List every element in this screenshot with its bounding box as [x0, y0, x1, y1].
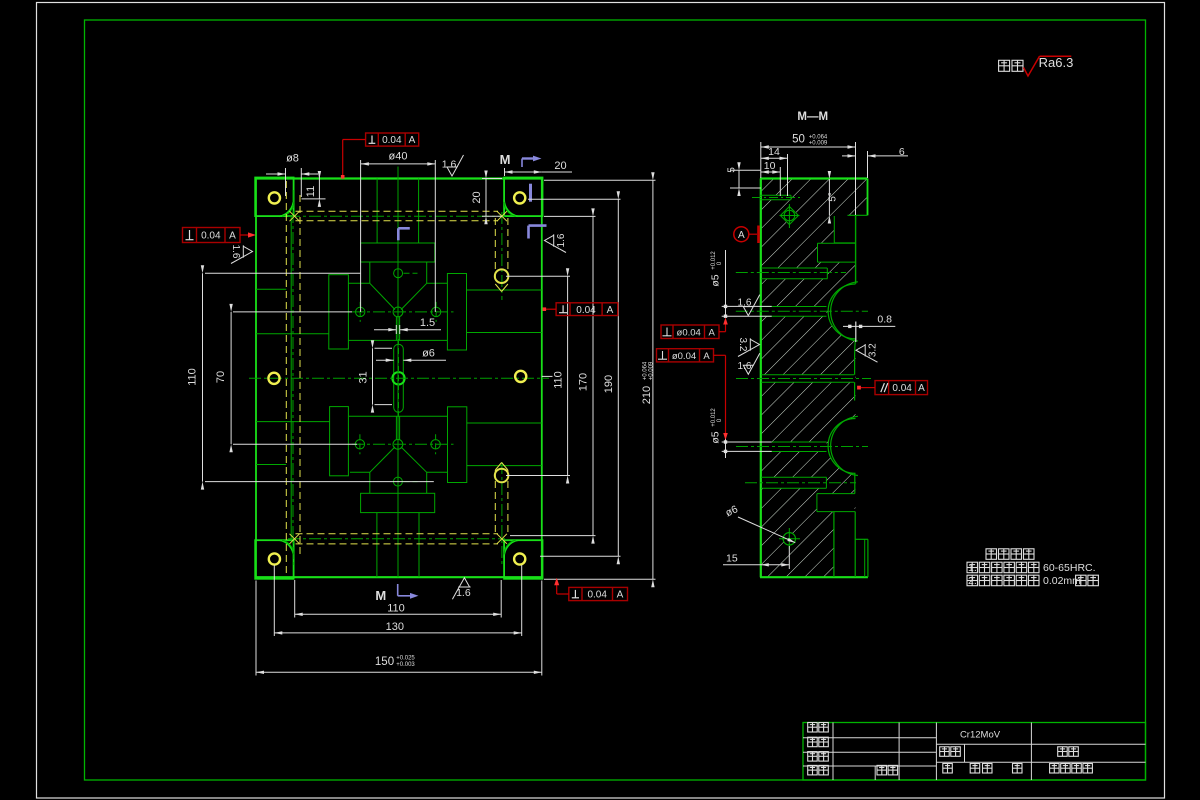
svg-text:110: 110 [387, 603, 405, 615]
boss side ears [329, 275, 349, 349]
svg-text:ø0.04: ø0.04 [672, 351, 696, 362]
svg-text:A: A [229, 231, 236, 242]
svg-text:14: 14 [768, 146, 780, 158]
svg-text:1.6: 1.6 [556, 233, 567, 247]
svg-text:ø0.04: ø0.04 [677, 327, 701, 338]
svg-text:50: 50 [792, 134, 805, 146]
svg-text:ø5: ø5 [710, 431, 722, 443]
svg-text:3.2: 3.2 [737, 338, 748, 352]
svg-text:+0.009: +0.009 [649, 361, 655, 380]
svg-text:11: 11 [305, 186, 317, 197]
screw hole circles [269, 192, 280, 203]
svg-text:60-65HRC.: 60-65HRC. [1043, 562, 1096, 574]
svg-text:Cr12MoV: Cr12MoV [960, 730, 1001, 741]
svg-text:ø40: ø40 [389, 151, 408, 163]
svg-text:M—M: M—M [797, 111, 828, 123]
svg-text:A: A [607, 305, 614, 316]
lower gate boss with holes [361, 493, 435, 512]
svg-text:0.04: 0.04 [201, 231, 221, 242]
svg-text:A: A [918, 383, 925, 394]
svg-text:A: A [617, 590, 624, 601]
svg-text:+0.012: +0.012 [711, 408, 717, 427]
svg-text:ø5: ø5 [710, 274, 722, 286]
general roughness note Ra6.3 [999, 60, 1010, 71]
section outline [760, 179, 762, 578]
svg-text:5°: 5° [828, 192, 839, 202]
svg-text:ø8: ø8 [286, 153, 299, 165]
svg-text:0.8: 0.8 [877, 314, 892, 326]
title block [803, 723, 1146, 781]
svg-text:1.6: 1.6 [442, 158, 457, 170]
left edge step lines [256, 288, 286, 290]
GD&T feature control frames [366, 133, 419, 146]
svg-text:A: A [709, 327, 716, 338]
svg-text:5: 5 [727, 167, 738, 173]
svg-text:+0.009: +0.009 [809, 141, 828, 147]
svg-text:M: M [500, 152, 511, 167]
svg-text:0.04: 0.04 [576, 305, 596, 316]
svg-text:A: A [703, 351, 710, 362]
svg-text:M: M [375, 588, 386, 603]
right edge step lines [467, 289, 542, 291]
svg-text:170: 170 [578, 373, 590, 391]
centerlines [249, 377, 549, 379]
svg-text:110: 110 [187, 368, 199, 386]
svg-text:1.5: 1.5 [420, 317, 435, 329]
svg-text:+0.012: +0.012 [711, 251, 717, 270]
center slot dia6 [393, 349, 395, 408]
svg-text:A: A [409, 135, 416, 146]
section centerlines [736, 272, 846, 274]
svg-text:1.6: 1.6 [230, 245, 241, 259]
svg-text:110: 110 [553, 371, 565, 389]
plan view: mold core part outline [256, 177, 542, 179]
svg-text:20: 20 [554, 160, 566, 172]
svg-text:1.6: 1.6 [456, 587, 471, 599]
svg-text:Ra6.3: Ra6.3 [1039, 55, 1074, 70]
svg-text:0.04: 0.04 [382, 135, 402, 146]
datum A and tolerance frames [734, 227, 749, 242]
svg-text:210: 210 [641, 386, 653, 404]
corner clamp tabs with fillets [255, 178, 293, 217]
svg-text:20: 20 [471, 191, 483, 203]
svg-text:3.2: 3.2 [868, 343, 879, 357]
svg-text:0.04: 0.04 [892, 383, 912, 394]
svg-text:190: 190 [603, 375, 615, 393]
svg-text:+0.025: +0.025 [396, 656, 415, 662]
svg-text:A: A [738, 230, 745, 241]
svg-text:130: 130 [386, 621, 404, 633]
svg-text:10: 10 [764, 160, 776, 172]
svg-text:ø6: ø6 [422, 348, 435, 360]
hidden cooling channels dia8 [296, 210, 499, 212]
section cut line M-M marks [521, 159, 523, 168]
svg-text:15: 15 [726, 553, 738, 565]
upper gate boss with holes [361, 243, 435, 262]
svg-text:31: 31 [358, 371, 370, 383]
svg-text:70: 70 [215, 371, 227, 383]
svg-text:+0.003: +0.003 [396, 662, 415, 668]
technical requirements notes [986, 549, 997, 560]
svg-text:0.04: 0.04 [587, 590, 607, 601]
svg-text:1.6: 1.6 [738, 361, 752, 372]
svg-text:150: 150 [375, 656, 394, 668]
